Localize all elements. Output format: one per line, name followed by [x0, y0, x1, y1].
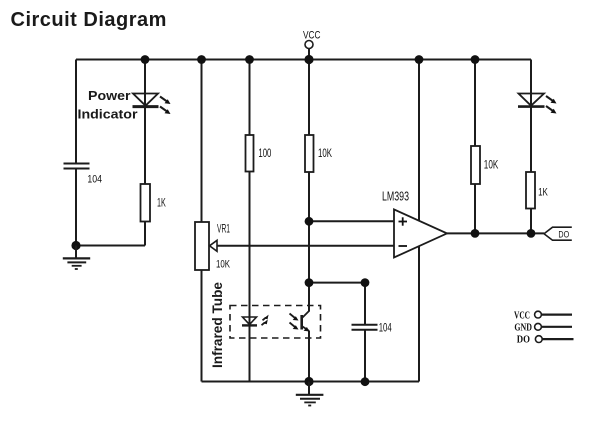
svg-text:LM393: LM393 [382, 189, 409, 203]
svg-text:Infrared Tube: Infrared Tube [210, 282, 225, 368]
svg-text:10K: 10K [318, 146, 332, 160]
svg-text:VR1: VR1 [217, 224, 230, 236]
svg-text:DO: DO [558, 229, 569, 240]
svg-text:104: 104 [379, 323, 392, 335]
svg-text:VCC: VCC [514, 310, 530, 322]
svg-text:Power: Power [88, 88, 131, 103]
svg-text:VCC: VCC [303, 29, 321, 41]
svg-text:Circuit Diagram: Circuit Diagram [11, 9, 167, 31]
svg-text:GND: GND [514, 321, 532, 333]
svg-text:Indicator: Indicator [78, 106, 138, 121]
svg-text:1K: 1K [157, 195, 166, 209]
svg-text:104: 104 [87, 173, 102, 185]
svg-text:1K: 1K [538, 186, 548, 198]
svg-text:10K: 10K [484, 159, 499, 171]
svg-text:10K: 10K [216, 259, 230, 271]
svg-text:DO: DO [517, 333, 531, 345]
svg-text:100: 100 [258, 146, 271, 160]
